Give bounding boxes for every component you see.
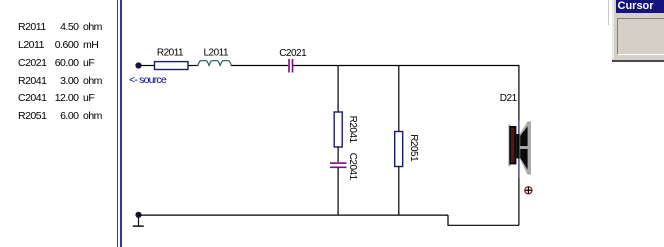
label C2021 [279,48,307,59]
cursor window left highlight [612,0,614,59]
wire R2011 to L2011 [188,65,198,67]
label L2011 [204,47,230,58]
wire C2041 to bottom [337,168,339,215]
svg-text:R2011: R2011 [157,47,184,58]
svg-text:C2041: C2041 [347,153,358,181]
cursor window bottom shadow [612,60,664,62]
svg-text:<- source: <- source [129,74,167,86]
resistor R2011 [155,62,189,70]
svg-text:L2011: L2011 [204,47,230,58]
label source [129,74,167,86]
wire R2051 to bottom [398,167,400,216]
svg-text:R2051: R2051 [408,134,419,162]
wire L2011 to C2021 [232,65,289,67]
capacitor C2021 [288,59,293,73]
resistor R2041 [334,112,342,147]
svg-text:D21: D21 [500,93,518,104]
value list line L2011 [0,38,1,40]
wire C2021 to right corner [293,65,519,67]
wire branch2 top [398,66,400,132]
label R2011 [157,47,184,58]
ground symbol [133,215,144,226]
divider double blue line [117,0,118,247]
value list line R2011 [0,20,1,22]
label R2051 [408,134,419,162]
marker positive terminal [525,187,532,194]
cursor window frame edge line [608,0,609,25]
node source [135,62,141,68]
cursor window [612,0,664,62]
svg-text:C2021: C2021 [279,48,307,59]
wire source to R2011 [140,65,155,67]
resistor R2051 [395,132,403,167]
label D21 [500,93,518,104]
label R2041 [347,116,358,144]
wire bottom step [448,215,519,225]
speaker D21 [508,122,531,175]
wire speaker branch vertical [518,65,520,225]
svg-text:R2041: R2041 [347,116,358,144]
value list line R2051 [0,109,1,111]
wire R2041 to C2041 [337,147,339,162]
cursor window title bar [616,0,664,13]
wire bottom left run [139,214,449,216]
cursor window inner panel [617,18,664,55]
value list line R2041 [0,74,1,76]
cursor window title text [618,0,664,12]
value list line C2021 [0,56,1,58]
label C2041 [347,153,358,181]
wire branch1 top [337,66,339,113]
value list line C2041 [0,91,1,93]
capacitor C2041 [330,162,347,168]
inductor L2011 [198,61,232,67]
node ground [135,212,141,218]
